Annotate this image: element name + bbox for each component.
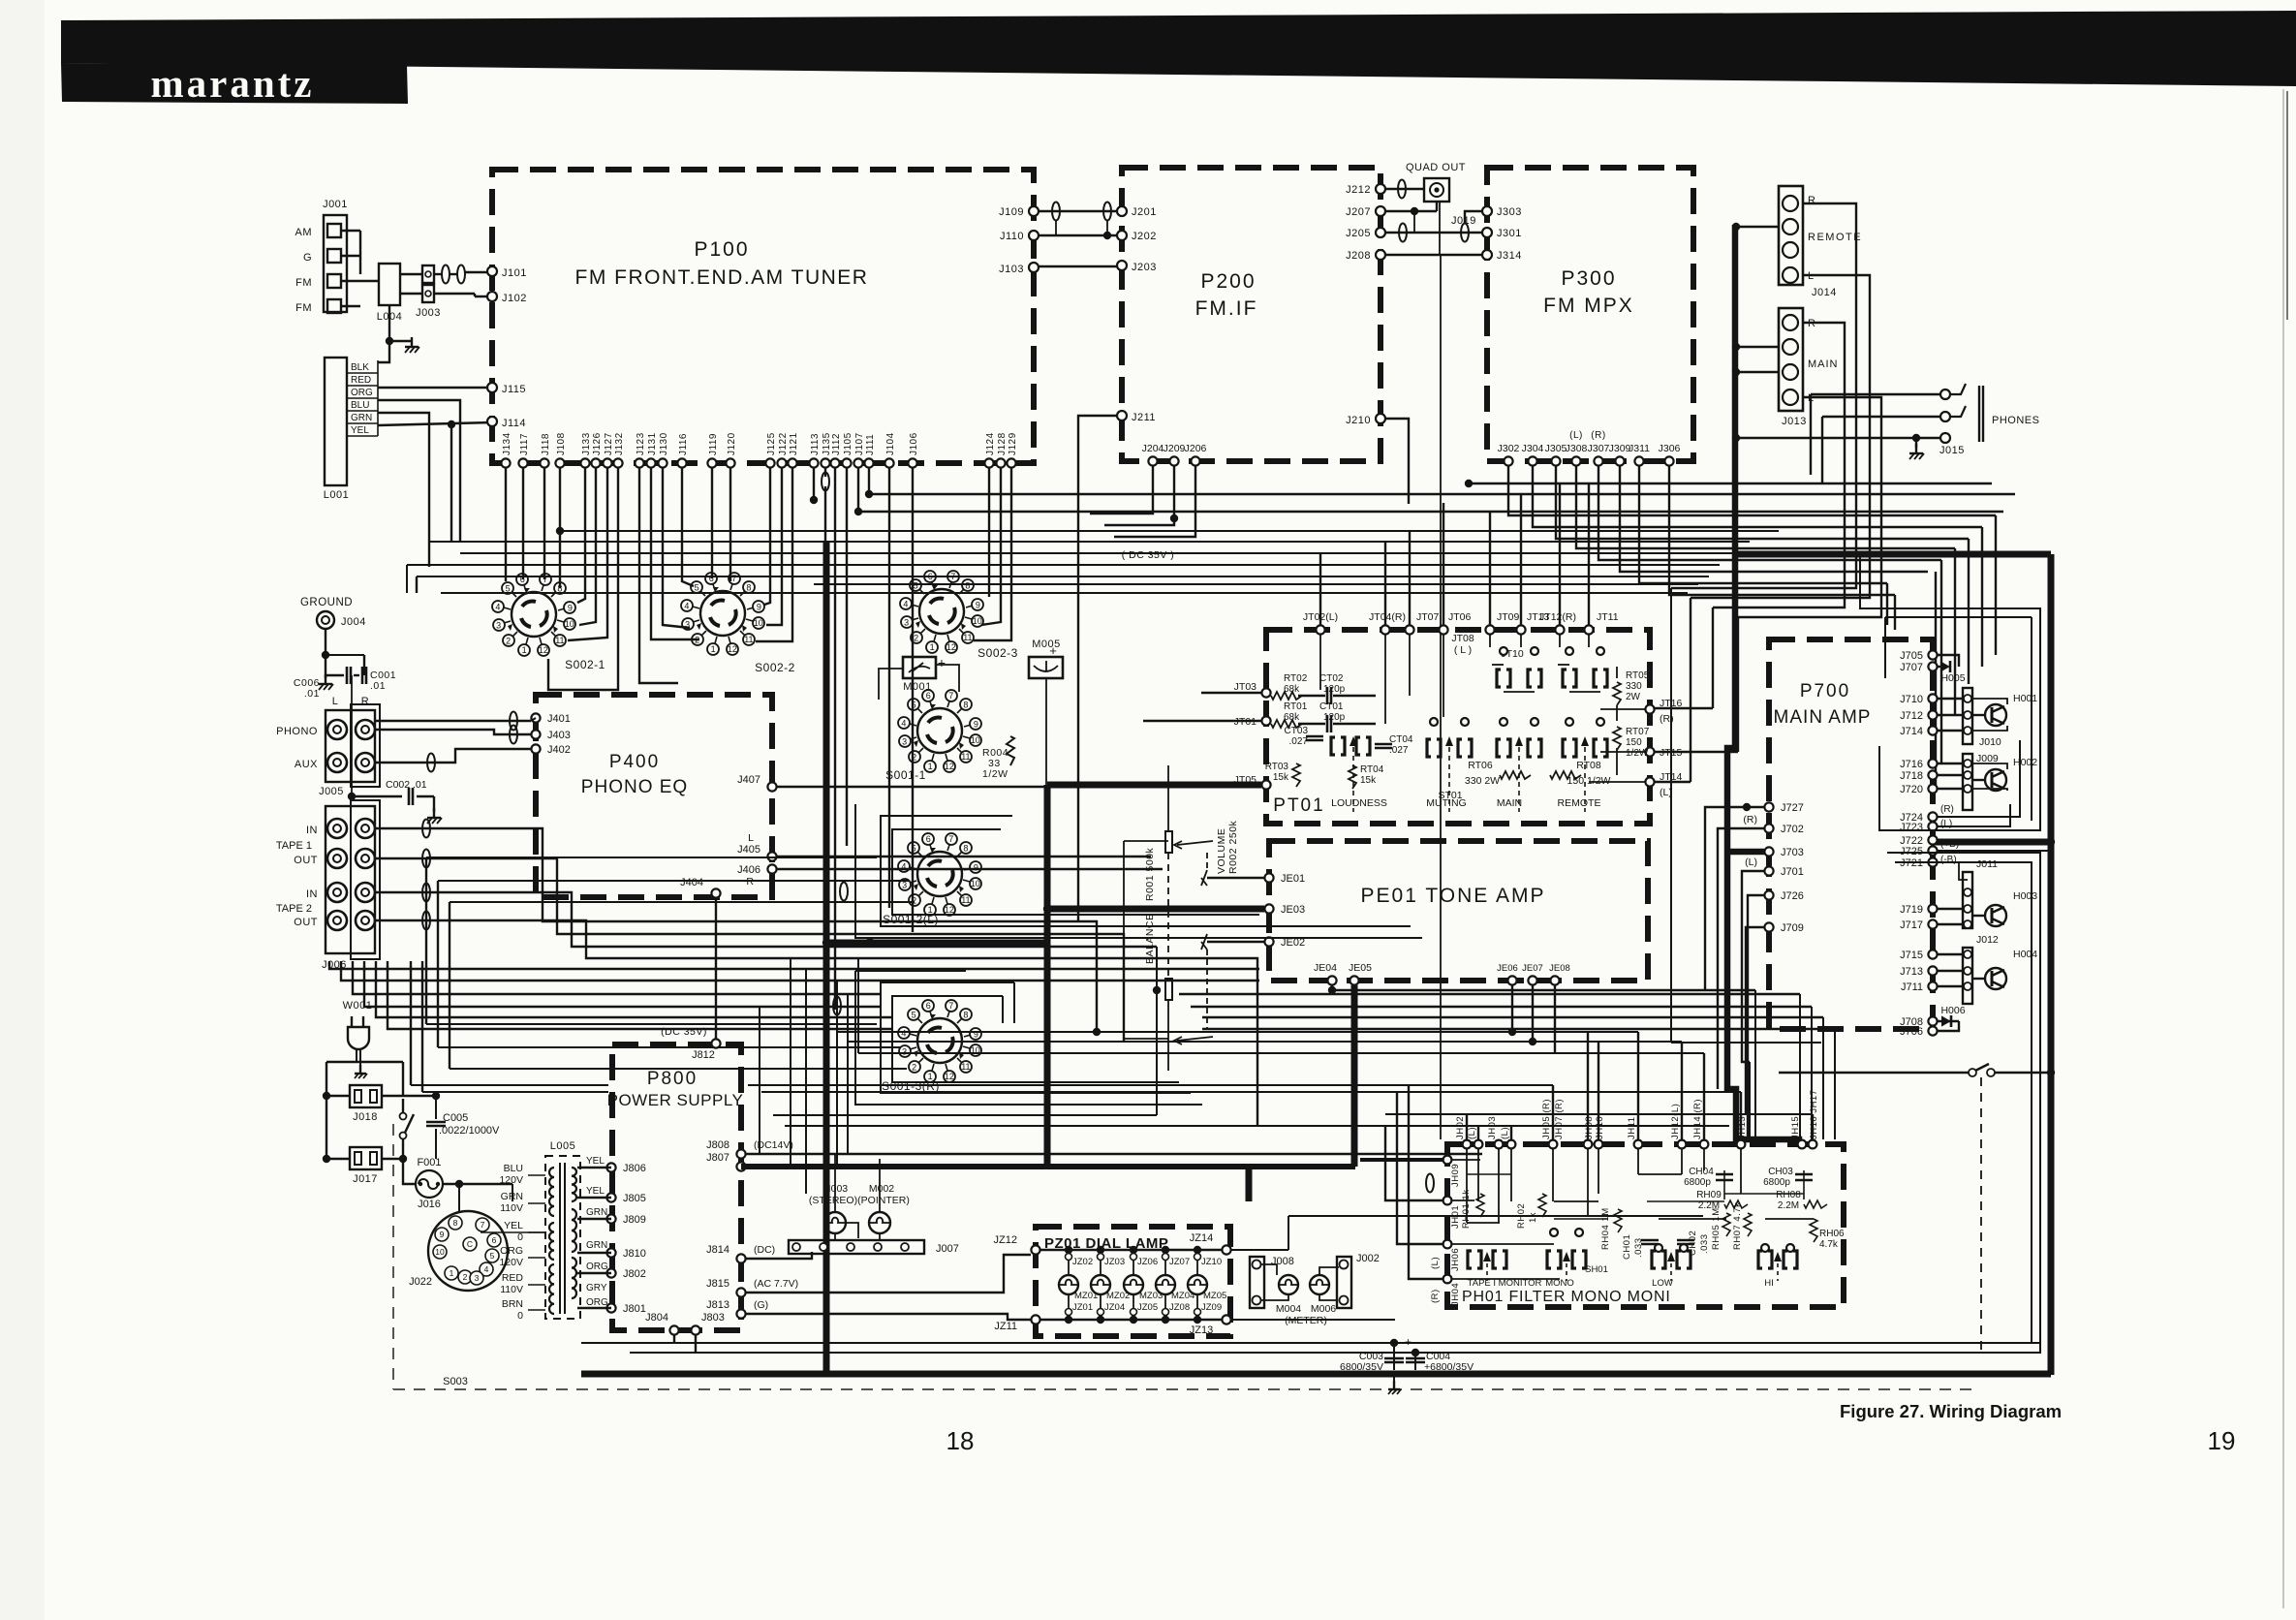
svg-text:150: 150 [1626, 737, 1642, 748]
svg-text:1: 1 [930, 642, 935, 652]
svg-text:J010: J010 [1979, 736, 2001, 748]
svg-text:JH07 (R): JH07 (R) [1554, 1099, 1565, 1139]
svg-text:J713: J713 [1900, 966, 1923, 978]
svg-text:J007: J007 [936, 1243, 959, 1255]
svg-text:JH10: JH10 [1595, 1116, 1605, 1139]
svg-text:J206: J206 [1185, 443, 1207, 454]
svg-text:J012: J012 [1976, 934, 1999, 946]
svg-text:M004: M004 [1276, 1303, 1301, 1315]
svg-text:8: 8 [965, 580, 970, 590]
svg-text:S002-1: S002-1 [565, 658, 605, 671]
svg-text:J307: J307 [1588, 443, 1610, 454]
svg-text:J719: J719 [1900, 904, 1923, 916]
svg-text:RH07 4.7k: RH07 4.7k [1732, 1202, 1743, 1250]
svg-text:1k: 1k [1528, 1212, 1538, 1223]
svg-text:(+B): (+B) [1940, 839, 1959, 850]
svg-text:6800/35V: 6800/35V [1340, 1361, 1383, 1373]
svg-text:IN: IN [306, 825, 318, 836]
svg-text:(R): (R) [1743, 814, 1757, 826]
svg-text:7: 7 [731, 574, 736, 583]
svg-text:.0022/1000V: .0022/1000V [439, 1125, 500, 1137]
svg-text:RH09: RH09 [1696, 1190, 1722, 1200]
svg-text:J210: J210 [1346, 415, 1371, 426]
svg-text:0: 0 [517, 1231, 523, 1243]
svg-text:JZ01: JZ01 [1072, 1302, 1093, 1313]
svg-text:MONO: MONO [1545, 1278, 1574, 1289]
svg-text:(-B): (-B) [1940, 855, 1957, 865]
svg-text:L: L [332, 696, 339, 707]
svg-text:J808: J808 [706, 1139, 729, 1151]
svg-text:RT06: RT06 [1468, 760, 1493, 771]
svg-text:J727: J727 [1781, 802, 1804, 814]
svg-text:JH11: JH11 [1627, 1117, 1637, 1139]
svg-text:J101: J101 [502, 267, 527, 279]
svg-text:JH03: JH03 [1487, 1116, 1498, 1139]
svg-text:J205: J205 [1346, 228, 1371, 239]
svg-text:JE01: JE01 [1281, 873, 1305, 885]
svg-text:J202: J202 [1132, 231, 1157, 242]
svg-text:4: 4 [901, 1028, 906, 1038]
svg-text:10: 10 [565, 619, 574, 629]
svg-text:H004: H004 [2013, 949, 2037, 960]
svg-text:JH06: JH06 [1450, 1248, 1461, 1271]
svg-text:J710: J710 [1900, 694, 1923, 705]
svg-text:J106: J106 [909, 432, 919, 455]
svg-text:2: 2 [463, 1272, 468, 1282]
svg-text:JZ02: JZ02 [1072, 1257, 1093, 1267]
svg-text:J402: J402 [547, 744, 571, 756]
svg-text:FM: FM [295, 302, 312, 314]
svg-text:IN: IN [306, 888, 318, 900]
svg-text:J102: J102 [502, 293, 527, 304]
svg-text:J126: J126 [592, 432, 603, 455]
svg-text:JE04: JE04 [1314, 962, 1337, 974]
svg-text:PT01: PT01 [1273, 795, 1324, 816]
svg-text:GRN: GRN [351, 413, 372, 423]
svg-text:18: 18 [946, 1426, 975, 1455]
svg-text:J303: J303 [1497, 206, 1522, 218]
svg-text:J011: J011 [1976, 858, 1998, 870]
svg-text:0: 0 [517, 1310, 523, 1322]
svg-text:J201: J201 [1132, 206, 1157, 218]
svg-text:8: 8 [453, 1218, 458, 1228]
svg-text:J716: J716 [1900, 759, 1923, 770]
svg-text:RED: RED [502, 1272, 524, 1284]
svg-text:P700: P700 [1800, 681, 1850, 701]
svg-text:+: + [938, 655, 946, 670]
svg-text:19: 19 [2208, 1426, 2236, 1455]
svg-text:J125: J125 [766, 432, 777, 455]
svg-text:RH01 1k: RH01 1k [1461, 1190, 1472, 1229]
svg-text:330: 330 [1626, 681, 1642, 692]
svg-text:MZ04: MZ04 [1171, 1291, 1195, 1301]
svg-text:+6800/35V: +6800/35V [1424, 1361, 1474, 1373]
svg-text:CH03: CH03 [1768, 1167, 1793, 1177]
svg-text:J701: J701 [1781, 866, 1804, 878]
svg-text:MAIN AMP: MAIN AMP [1774, 707, 1872, 728]
svg-text:4: 4 [903, 599, 908, 608]
svg-text:JH04: JH04 [1450, 1283, 1461, 1306]
svg-text:H005: H005 [1940, 672, 1965, 684]
svg-text:J120: J120 [727, 432, 737, 455]
svg-text:( DC 35V ): ( DC 35V ) [1122, 549, 1175, 561]
svg-text:1: 1 [711, 644, 716, 654]
svg-text:FM: FM [295, 277, 312, 289]
svg-text:4: 4 [484, 1264, 489, 1274]
svg-text:JH16 JH17: JH16 JH17 [1809, 1090, 1819, 1140]
svg-text:YEL: YEL [586, 1186, 605, 1197]
svg-text:8: 8 [963, 843, 968, 853]
svg-text:(R): (R) [1591, 430, 1605, 441]
svg-text:LOW: LOW [1652, 1278, 1673, 1289]
svg-text:3: 3 [902, 1046, 907, 1056]
svg-text:JT03: JT03 [1234, 681, 1257, 693]
svg-text:9: 9 [974, 720, 978, 730]
svg-text:7: 7 [948, 834, 953, 844]
svg-text:YEL: YEL [586, 1156, 605, 1167]
svg-text:J204: J204 [1142, 443, 1164, 454]
svg-text:JH02: JH02 [1455, 1116, 1466, 1139]
svg-text:MAIN: MAIN [1497, 797, 1522, 809]
svg-text:J130: J130 [659, 432, 669, 455]
svg-text:J129: J129 [1008, 432, 1018, 455]
svg-text:(L): (L) [1940, 819, 1952, 829]
svg-text:RT01: RT01 [1284, 701, 1308, 712]
svg-text:11: 11 [963, 633, 972, 642]
svg-text:2: 2 [914, 634, 918, 643]
svg-text:2.2M: 2.2M [1778, 1200, 1799, 1211]
svg-text:JZ09: JZ09 [1201, 1302, 1222, 1313]
svg-text:11: 11 [961, 895, 970, 905]
svg-text:12: 12 [945, 1072, 954, 1081]
svg-text:5: 5 [695, 582, 699, 592]
svg-text:J802: J802 [623, 1268, 646, 1280]
svg-text:J003: J003 [416, 307, 441, 319]
svg-text:BRN: BRN [502, 1298, 523, 1310]
svg-text:9: 9 [976, 601, 980, 610]
svg-text:S002-2: S002-2 [755, 661, 795, 674]
svg-text:3: 3 [904, 617, 909, 627]
svg-text:L001: L001 [324, 489, 349, 501]
svg-text:J103: J103 [999, 264, 1024, 275]
svg-text:(G): (G) [754, 1299, 768, 1311]
svg-text:RH05 1M: RH05 1M [1711, 1207, 1722, 1250]
svg-text:9: 9 [757, 603, 761, 612]
svg-text:JE08: JE08 [1549, 963, 1570, 974]
svg-text:J004: J004 [341, 616, 366, 628]
svg-text:marantz: marantz [150, 61, 314, 106]
svg-text:J304: J304 [1522, 443, 1544, 454]
svg-text:P300: P300 [1561, 267, 1616, 290]
svg-text:J711: J711 [1901, 981, 1923, 993]
svg-text:10: 10 [971, 879, 980, 888]
svg-text:J805: J805 [623, 1193, 646, 1204]
svg-text:J018: J018 [353, 1111, 378, 1123]
svg-text:H006: H006 [1940, 1005, 1965, 1016]
svg-text:J013: J013 [1782, 416, 1807, 427]
svg-text:MZ02: MZ02 [1106, 1291, 1130, 1301]
svg-text:J002: J002 [1356, 1253, 1380, 1264]
svg-text:JH08: JH08 [1584, 1116, 1595, 1139]
svg-text:JZ10: JZ10 [1201, 1257, 1222, 1267]
svg-text:H003: H003 [2013, 890, 2037, 902]
svg-text:RH08: RH08 [1776, 1190, 1801, 1200]
svg-text:(STEREO): (STEREO) [809, 1195, 857, 1206]
svg-text:J723: J723 [1900, 822, 1923, 833]
svg-text:JZ07: JZ07 [1169, 1257, 1190, 1267]
svg-text:11: 11 [961, 752, 970, 762]
svg-text:J111: J111 [865, 434, 876, 455]
svg-text:OUT: OUT [294, 855, 318, 866]
svg-text:PHONO EQ: PHONO EQ [581, 777, 688, 797]
svg-text:J117: J117 [519, 433, 530, 455]
svg-text:4: 4 [684, 601, 689, 610]
svg-text:J005: J005 [319, 786, 344, 797]
svg-text:10: 10 [971, 735, 980, 745]
svg-text:C: C [467, 1239, 473, 1249]
svg-text:JE05: JE05 [1349, 962, 1372, 974]
svg-text:J705: J705 [1900, 650, 1923, 662]
svg-text:CH01: CH01 [1622, 1234, 1632, 1260]
svg-text:1: 1 [450, 1268, 454, 1278]
svg-text:JZ08: JZ08 [1169, 1302, 1190, 1313]
svg-text:JT12(R): JT12(R) [1539, 611, 1576, 623]
svg-text:TAPE I MONITOR: TAPE I MONITOR [1468, 1278, 1542, 1289]
svg-text:J016: J016 [418, 1199, 441, 1210]
svg-text:J131: J131 [647, 432, 658, 455]
svg-text:J308: J308 [1566, 443, 1588, 454]
svg-text:J712: J712 [1900, 710, 1923, 722]
svg-text:J703: J703 [1781, 847, 1804, 858]
svg-text:5: 5 [914, 580, 918, 590]
svg-text:J815: J815 [706, 1278, 729, 1290]
svg-text:Figure 27. Wiring Diagram: Figure 27. Wiring Diagram [1840, 1401, 2062, 1421]
svg-text:12: 12 [728, 644, 737, 654]
svg-text:ORG: ORG [351, 388, 373, 398]
svg-text:7: 7 [948, 691, 953, 701]
svg-text:REMOTE: REMOTE [1558, 797, 1601, 809]
svg-text:JT11: JT11 [1597, 611, 1619, 623]
svg-text:JH13: JH13 [1737, 1116, 1748, 1139]
svg-text:1/2W: 1/2W [1626, 748, 1649, 759]
svg-text:6800p: 6800p [1763, 1177, 1790, 1188]
svg-text:M006: M006 [1311, 1303, 1336, 1315]
svg-text:2W: 2W [1626, 692, 1641, 702]
svg-text:YEL: YEL [504, 1220, 523, 1231]
svg-text:.01: .01 [370, 680, 386, 692]
svg-text:J207: J207 [1346, 206, 1371, 218]
svg-text:+: + [1405, 1335, 1412, 1349]
svg-text:C002 .01: C002 .01 [386, 779, 427, 791]
svg-text:R002 250k: R002 250k [1227, 820, 1239, 874]
svg-text:1/2W: 1/2W [982, 768, 1008, 780]
svg-text:J806: J806 [623, 1163, 646, 1174]
svg-text:M002: M002 [869, 1183, 894, 1195]
svg-text:J115: J115 [502, 384, 526, 395]
svg-text:J128: J128 [997, 432, 1008, 455]
svg-text:J127: J127 [604, 432, 614, 455]
svg-text:330 2W: 330 2W [1465, 775, 1500, 787]
svg-text:G: G [303, 252, 312, 264]
svg-text:J017: J017 [353, 1173, 378, 1185]
svg-text:( L ): ( L ) [1454, 644, 1472, 656]
svg-text:H002: H002 [2013, 757, 2037, 768]
svg-text:J124: J124 [985, 432, 996, 455]
svg-text:MZ05: MZ05 [1203, 1291, 1226, 1301]
svg-text:C005: C005 [443, 1112, 468, 1124]
svg-text:RT05: RT05 [1626, 670, 1650, 681]
svg-text:PE01 TONE AMP: PE01 TONE AMP [1361, 885, 1546, 907]
svg-text:J121: J121 [789, 432, 799, 455]
svg-text:CT04: CT04 [1389, 734, 1413, 745]
svg-text:15k: 15k [1360, 775, 1377, 786]
svg-text:.01: .01 [304, 688, 320, 700]
svg-text:J715: J715 [1900, 950, 1923, 961]
svg-text:5: 5 [506, 583, 511, 593]
svg-text:J211: J211 [1132, 412, 1156, 423]
svg-text:JE06: JE06 [1497, 963, 1518, 974]
svg-text:J803: J803 [701, 1312, 725, 1324]
svg-text:2: 2 [506, 637, 511, 646]
svg-text:L: L [748, 832, 754, 844]
svg-text:JZ03: JZ03 [1104, 1257, 1125, 1267]
svg-text:FM.IF: FM.IF [1195, 297, 1258, 320]
svg-text:J306: J306 [1659, 443, 1681, 454]
svg-text:GROUND: GROUND [300, 597, 353, 608]
svg-text:R001 500k: R001 500k [1144, 847, 1156, 901]
svg-text:JH14 (R): JH14 (R) [1692, 1099, 1703, 1139]
svg-text:J208: J208 [1346, 250, 1371, 262]
svg-text:J110: J110 [1000, 231, 1024, 242]
svg-text:M001: M001 [903, 681, 932, 693]
svg-text:J717: J717 [1900, 919, 1923, 931]
svg-text:JT04(R): JT04(R) [1369, 611, 1406, 623]
svg-text:J134: J134 [502, 432, 512, 455]
svg-text:S001-1: S001-1 [885, 768, 926, 782]
svg-text:JZ14: JZ14 [1190, 1232, 1213, 1244]
svg-text:OUT: OUT [294, 917, 318, 928]
svg-text:J119: J119 [708, 433, 719, 455]
svg-text:J809: J809 [623, 1214, 646, 1226]
svg-text:JT07: JT07 [1416, 611, 1440, 623]
svg-text:(L): (L) [1500, 1127, 1510, 1139]
svg-text:J305: J305 [1545, 443, 1567, 454]
svg-text:J112: J112 [831, 433, 842, 455]
svg-text:(L): (L) [1467, 1127, 1477, 1139]
svg-text:POWER SUPPLY: POWER SUPPLY [607, 1091, 744, 1109]
svg-text:12: 12 [539, 645, 548, 655]
svg-text:8: 8 [963, 700, 968, 709]
svg-text:RED: RED [351, 375, 371, 386]
svg-text:F001: F001 [417, 1157, 441, 1168]
svg-text:J109: J109 [999, 206, 1024, 218]
svg-text:4: 4 [495, 602, 500, 611]
svg-text:J114: J114 [502, 418, 526, 429]
svg-text:GRY: GRY [586, 1283, 607, 1293]
svg-text:P800: P800 [647, 1069, 698, 1089]
svg-text:W001: W001 [343, 1000, 373, 1012]
svg-text:J113: J113 [810, 433, 821, 455]
svg-text:120V: 120V [499, 1257, 523, 1268]
svg-text:TAPE 1: TAPE 1 [276, 840, 312, 852]
svg-text:JT08: JT08 [1451, 633, 1474, 644]
svg-text:JH12(L): JH12(L) [1670, 1104, 1681, 1139]
svg-text:5: 5 [490, 1251, 495, 1261]
svg-text:110V: 110V [500, 1284, 523, 1295]
svg-text:J405: J405 [737, 844, 760, 856]
svg-text:JE03: JE03 [1281, 904, 1305, 916]
svg-text:4: 4 [901, 718, 906, 728]
svg-text:12: 12 [945, 905, 954, 915]
svg-text:J302: J302 [1498, 443, 1520, 454]
svg-text:J706: J706 [1900, 1026, 1923, 1038]
svg-text:CT02: CT02 [1319, 673, 1344, 684]
svg-text:(L): (L) [1660, 787, 1672, 798]
svg-text:J404: J404 [680, 877, 703, 888]
svg-text:JT09: JT09 [1497, 611, 1520, 623]
svg-text:JH09: JH09 [1450, 1164, 1461, 1187]
svg-text:GRN: GRN [586, 1240, 607, 1251]
svg-text:10: 10 [754, 618, 763, 628]
svg-text:(AC 7.7V): (AC 7.7V) [754, 1278, 798, 1290]
svg-text:15k: 15k [1273, 772, 1289, 783]
svg-text:AM: AM [295, 227, 313, 238]
svg-text:(R): (R) [1940, 804, 1954, 815]
svg-text:J203: J203 [1132, 262, 1157, 273]
svg-text:.027: .027 [1389, 745, 1409, 756]
svg-text:AUX: AUX [295, 759, 318, 770]
svg-text:YEL: YEL [351, 425, 369, 436]
svg-text:+: + [1049, 643, 1057, 658]
svg-text:J122: J122 [778, 432, 789, 455]
svg-text:6800p: 6800p [1684, 1177, 1711, 1188]
svg-text:J123: J123 [636, 432, 646, 455]
svg-text:J116: J116 [678, 433, 689, 455]
svg-text:10: 10 [973, 616, 982, 626]
svg-text:RT08: RT08 [1576, 760, 1601, 771]
svg-text:RH06: RH06 [1819, 1229, 1845, 1239]
svg-text:.027: .027 [1289, 736, 1309, 747]
svg-text:JZ11: JZ11 [994, 1321, 1017, 1332]
svg-text:ORG: ORG [586, 1262, 608, 1272]
svg-text:J718: J718 [1900, 770, 1923, 782]
svg-text:6: 6 [926, 834, 931, 844]
svg-text:ORG: ORG [586, 1297, 608, 1308]
svg-text:9: 9 [440, 1230, 445, 1239]
svg-text:GRN: GRN [586, 1207, 607, 1218]
svg-text:JZ13: JZ13 [1190, 1324, 1213, 1336]
svg-text:J407: J407 [737, 774, 760, 786]
svg-text:JH05 (R): JH05 (R) [1541, 1099, 1552, 1139]
svg-text:REMOTE: REMOTE [1808, 232, 1862, 243]
svg-text:ORG: ORG [500, 1245, 523, 1257]
svg-text:J209: J209 [1164, 443, 1186, 454]
svg-text:J015: J015 [1939, 445, 1965, 456]
svg-text:(POINTER): (POINTER) [857, 1195, 910, 1206]
svg-text:3: 3 [902, 736, 907, 746]
svg-text:J720: J720 [1900, 784, 1923, 795]
svg-text:J810: J810 [623, 1248, 646, 1260]
svg-text:J008: J008 [1271, 1256, 1294, 1267]
svg-text:J133: J133 [581, 432, 592, 455]
svg-text:12: 12 [946, 642, 956, 652]
svg-text:J403: J403 [547, 730, 571, 741]
svg-text:MZ01: MZ01 [1074, 1291, 1098, 1301]
svg-text:6: 6 [926, 1001, 931, 1011]
svg-text:J001: J001 [323, 199, 348, 210]
svg-text:10: 10 [435, 1247, 445, 1257]
svg-text:J801: J801 [623, 1303, 646, 1315]
